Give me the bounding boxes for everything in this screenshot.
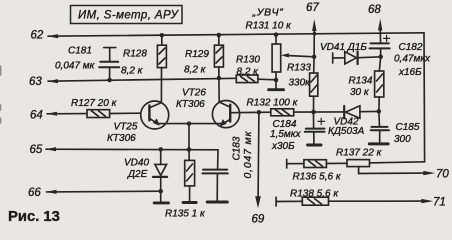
ground: below VD40 <box>154 191 168 203</box>
svg-text:C181: C181 <box>68 46 92 57</box>
label terminal 68 <box>368 4 381 16</box>
label R136 <box>293 172 342 183</box>
wire: base rail VT26 / R132 / VD42 <box>231 111 379 112</box>
terminal 64 arrow <box>47 112 58 116</box>
capacitor C181 <box>99 48 119 79</box>
svg-text:66: 66 <box>28 187 41 199</box>
label R127 <box>71 98 118 109</box>
diode VD41 <box>333 52 381 64</box>
svg-text:R129: R129 <box>185 49 209 60</box>
svg-text:71: 71 <box>433 197 446 209</box>
svg-text:C183: C183 <box>232 136 243 160</box>
svg-text:VD41 Д1Б: VD41 Д1Б <box>320 42 367 53</box>
label terminal 65 <box>30 144 43 156</box>
svg-text:R133: R133 <box>287 63 311 74</box>
label terminal 69 <box>252 214 265 226</box>
junction: VD40 top on rail 65 <box>158 147 163 152</box>
resistor R127 <box>87 110 110 118</box>
svg-text:КД503А: КД503А <box>328 126 365 137</box>
svg-text:8,2 к: 8,2 к <box>184 65 207 76</box>
junction: VT26 base / terminal 69 <box>257 110 262 115</box>
svg-text:R134: R134 <box>349 76 373 87</box>
label R138 <box>290 189 339 200</box>
svg-text:8,2 к: 8,2 к <box>237 67 260 78</box>
wire: rail 66 <box>47 190 161 193</box>
svg-text:330к: 330к <box>289 78 312 89</box>
junction: emitter bus center <box>187 121 192 126</box>
ground: below R131 <box>269 80 284 90</box>
svg-text:R130: R130 <box>236 55 260 66</box>
junction: VD40 on rail 66 <box>158 189 163 194</box>
label R137 <box>336 148 383 159</box>
wire: rail 63 <box>48 78 236 81</box>
wire: terminal 69 vertical <box>257 112 260 198</box>
wire: rail 62 <box>48 33 424 36</box>
label terminal 67 <box>306 2 319 14</box>
junction: R134 / C185 node <box>377 109 382 114</box>
svg-text:0,047 мк: 0,047 мк <box>242 131 254 179</box>
terminal 71 arrow <box>421 199 433 203</box>
svg-text:65: 65 <box>30 144 43 156</box>
transistor VT25 emitter arrowhead <box>153 118 161 126</box>
label C182 <box>394 42 431 78</box>
svg-text:300: 300 <box>394 134 411 145</box>
resistor R129 <box>214 36 223 78</box>
label R128 <box>121 49 147 77</box>
label VT25 <box>107 122 138 145</box>
svg-text:VT26: VT26 <box>182 88 206 99</box>
title text <box>78 9 180 21</box>
junction: wiper / VD41 node <box>312 55 317 60</box>
capacitor C184 <box>305 112 325 144</box>
terminal 65 arrow <box>46 147 57 151</box>
svg-text:х30Б: х30Б <box>271 141 295 152</box>
svg-text:0,047 мк: 0,047 мк <box>55 61 96 72</box>
label C184 <box>270 119 301 152</box>
junction: R128 on rail 62 <box>160 33 165 38</box>
svg-text:„УВЧ”: „УВЧ” <box>252 7 284 19</box>
junction: R135 top on rail 65 <box>187 147 192 152</box>
resistor R128 <box>157 36 166 103</box>
diode VD40 <box>153 149 167 191</box>
label VD41 <box>320 42 367 53</box>
label terminal 63 <box>29 76 42 88</box>
svg-text:Рис. 13: Рис. 13 <box>8 209 60 225</box>
svg-text:R128: R128 <box>123 49 147 60</box>
terminal 62 arrow <box>48 34 59 38</box>
label VD42 <box>328 117 365 138</box>
scan edge marks <box>0 66 2 123</box>
svg-text:R137 22 к: R137 22 к <box>336 148 383 159</box>
capacitor C182 <box>370 35 390 56</box>
label R129 <box>184 49 209 76</box>
ground: below R135 <box>183 201 196 204</box>
junction: R133 / C184 node <box>311 110 316 115</box>
svg-text:R135 1 к: R135 1 к <box>165 209 206 220</box>
svg-text:VT25: VT25 <box>114 122 138 133</box>
capacitor C185 <box>371 111 389 142</box>
wire: top right corner from rail 62 down <box>370 33 425 163</box>
resistor R137 <box>347 160 370 167</box>
terminal 66 arrow <box>46 190 57 194</box>
terminal 69 arrow <box>255 196 261 208</box>
label VD40 <box>124 158 149 181</box>
wire: R137 tap to terminal 70 <box>359 167 424 174</box>
terminal 70 arrow <box>423 171 435 175</box>
resistor R134 <box>375 57 384 112</box>
svg-text:8,2 к: 8,2 к <box>121 66 144 77</box>
label C185 <box>394 122 420 145</box>
resistor R138 <box>276 197 421 206</box>
junction: R129 bottom on rail 63 <box>217 76 222 81</box>
wire: terminal 67 / R133 vertical <box>313 29 316 73</box>
svg-text:69: 69 <box>252 214 265 226</box>
junction: 67 vertical on rail 62 <box>313 32 317 36</box>
label terminal 70 <box>436 169 449 181</box>
svg-text:62: 62 <box>31 29 44 41</box>
svg-text:R136 5,6 к: R136 5,6 к <box>293 172 342 183</box>
wire: terminal 64 to R127 <box>47 112 141 115</box>
svg-text:C182: C182 <box>399 42 423 53</box>
resistor R135 <box>185 150 195 202</box>
capacitor C183 <box>202 150 227 201</box>
junction: R131 top on rail 62 <box>274 32 279 37</box>
junction: VD41 / C182 / R134 node <box>378 55 383 60</box>
terminal 63 arrow <box>48 79 59 83</box>
svg-text:70: 70 <box>436 169 449 181</box>
resistor R132 <box>271 109 294 116</box>
resistor R136 <box>287 159 347 168</box>
transistor VT26 emitter arrowhead <box>219 119 227 127</box>
resistor R133 <box>310 73 318 112</box>
svg-text:КТ306: КТ306 <box>107 133 136 144</box>
ground: below C185 <box>369 142 388 145</box>
label R134 <box>349 76 373 99</box>
svg-text:VD40: VD40 <box>124 158 149 169</box>
junction: R129 on rail 62 <box>217 33 222 38</box>
svg-text:63: 63 <box>29 76 42 88</box>
wire: emitter bus <box>159 124 221 149</box>
junction: C181 on rail 63 <box>107 78 112 83</box>
label terminal 71 <box>433 197 446 209</box>
svg-text:КТ306: КТ306 <box>176 99 205 110</box>
label terminal 62 <box>31 29 44 41</box>
transistor VT25 <box>141 101 169 129</box>
svg-text:R127 20 к: R127 20 к <box>71 98 118 109</box>
svg-text:ИМ, S-метр, АРУ: ИМ, S-метр, АРУ <box>78 9 180 21</box>
label C183 (vertical) <box>232 131 255 179</box>
label terminal 64 <box>30 110 43 122</box>
transistor VT26 <box>212 78 239 128</box>
svg-text:64: 64 <box>30 110 43 122</box>
svg-text:C185: C185 <box>396 122 420 133</box>
svg-text:30 к: 30 к <box>350 87 370 98</box>
svg-text:Д2Е: Д2Е <box>127 169 148 180</box>
label R135 <box>165 209 206 220</box>
svg-text:68: 68 <box>368 4 381 16</box>
label terminal 66 <box>28 187 41 199</box>
wire: terminal 68 to C182 <box>379 29 381 43</box>
label R132 <box>247 98 299 109</box>
label УВЧ <box>252 7 284 19</box>
potentiometer R131 <box>272 35 314 80</box>
svg-text:х16Б: х16Б <box>398 67 422 78</box>
wire: rail 65 <box>46 148 218 151</box>
svg-text:R138 5,6 к: R138 5,6 к <box>290 189 339 200</box>
svg-text:1,5мкх: 1,5мкх <box>270 129 301 140</box>
ground: below C184 <box>308 144 321 147</box>
svg-text:0,47мкх: 0,47мкх <box>394 54 431 65</box>
figure caption <box>8 209 60 225</box>
label C181 <box>55 46 96 72</box>
terminal 67 arrow <box>312 19 316 31</box>
potentiometer R131 wiper arrowhead <box>281 53 289 57</box>
junction: R131 bottom node <box>274 78 279 83</box>
diode VD42 <box>344 106 360 119</box>
label R131 <box>246 21 293 32</box>
ground: below C183 <box>207 201 227 204</box>
svg-text:R132 100 к: R132 100 к <box>247 98 299 109</box>
title box <box>71 6 183 24</box>
label R130 <box>236 55 260 78</box>
resistor R130 <box>236 75 276 83</box>
label VT26 <box>176 88 206 111</box>
svg-text:67: 67 <box>306 2 319 14</box>
svg-text:R131 10 к: R131 10 к <box>246 21 293 32</box>
terminal 68 arrow <box>378 19 382 31</box>
label R133 <box>287 63 311 89</box>
